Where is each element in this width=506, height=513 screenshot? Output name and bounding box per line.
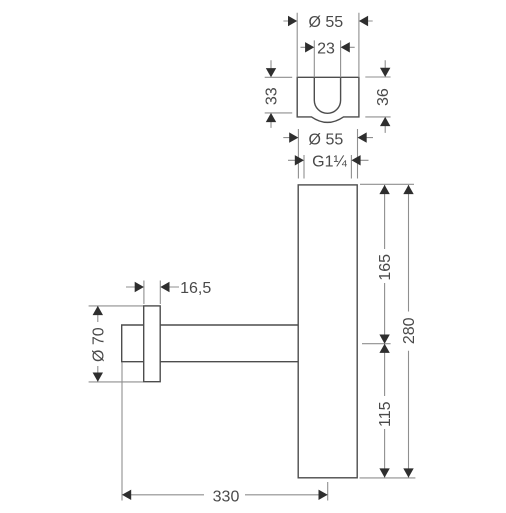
dimension D55 lower xyxy=(283,129,373,179)
svg-text:Ø 55: Ø 55 xyxy=(309,132,344,149)
dimension G 1 1/4 xyxy=(288,154,369,179)
svg-text:165: 165 xyxy=(377,254,394,281)
wall flange top view outline xyxy=(297,77,359,122)
svg-text:36: 36 xyxy=(375,88,392,106)
dimension 165 xyxy=(360,184,414,343)
dimension D55 top xyxy=(283,13,372,78)
dimension 33 left of flange top view xyxy=(264,60,293,128)
svg-text:115: 115 xyxy=(377,401,394,427)
dimension 115 xyxy=(360,344,416,478)
svg-text:23: 23 xyxy=(317,40,335,57)
wall flange side view xyxy=(144,306,161,382)
dimension 36 right of flange top view xyxy=(365,60,392,133)
svg-text:16,5: 16,5 xyxy=(180,280,211,297)
svg-text:280: 280 xyxy=(401,317,418,344)
siphon body outline xyxy=(298,185,357,478)
svg-text:G1¼: G1¼ xyxy=(312,154,347,171)
svg-text:330: 330 xyxy=(213,489,240,506)
dimension 330 xyxy=(122,363,328,506)
dimension 280 xyxy=(401,185,418,478)
dimension 16,5 xyxy=(126,280,211,304)
dimension 23 xyxy=(301,40,355,77)
dimension D70 xyxy=(89,306,143,382)
outlet pipe left stub xyxy=(122,325,144,362)
outlet pipe xyxy=(160,325,298,362)
svg-text:Ø 70: Ø 70 xyxy=(90,327,107,362)
svg-text:33: 33 xyxy=(264,87,281,105)
U cutout in flange top view xyxy=(314,77,340,113)
svg-text:Ø 55: Ø 55 xyxy=(308,14,343,31)
